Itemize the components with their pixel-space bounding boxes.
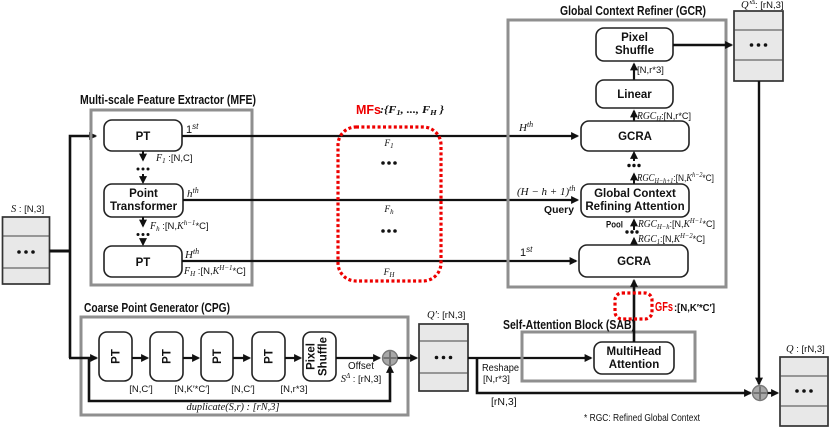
svg-text:FH: FH bbox=[383, 268, 396, 279]
MFE box bbox=[91, 110, 252, 285]
dots bbox=[625, 230, 638, 233]
svg-text:[N,K′*C′]: [N,K′*C′] bbox=[174, 384, 209, 395]
svg-text:GFs: GFs bbox=[655, 300, 673, 314]
svg-text:Reshape: Reshape bbox=[482, 363, 519, 374]
CPG box bbox=[81, 317, 408, 415]
svg-text:Refining Attention: Refining Attention bbox=[585, 201, 684, 213]
point transformer box bbox=[104, 184, 183, 217]
wire GCRA to Linear bbox=[633, 111, 635, 121]
svg-text:PT: PT bbox=[111, 349, 123, 364]
svg-text:RGCH−h+1:[N,Kh−2*C]: RGCH−h+1:[N,Kh−2*C] bbox=[636, 171, 714, 185]
svg-text:[N,C′]: [N,C′] bbox=[231, 384, 254, 395]
wire trunk into CPG bbox=[69, 357, 97, 360]
svg-text:S : [N,3]: S : [N,3] bbox=[11, 204, 44, 215]
svg-text:Transformer: Transformer bbox=[110, 201, 178, 213]
node S stack bbox=[3, 217, 50, 284]
PT box CPG 2 bbox=[150, 332, 183, 381]
PT box CPG 4 bbox=[252, 332, 285, 381]
svg-text:Linear: Linear bbox=[617, 89, 652, 101]
svg-text:[N,C′]: [N,C′] bbox=[129, 384, 152, 395]
svg-text:PT: PT bbox=[136, 131, 151, 143]
wire bbox=[233, 357, 250, 359]
wire RGC1 arrow bbox=[633, 239, 635, 246]
svg-text:1st: 1st bbox=[520, 245, 533, 260]
svg-text:Attention: Attention bbox=[609, 359, 659, 371]
svg-text:1st: 1st bbox=[186, 122, 199, 137]
svg-text:GCRA: GCRA bbox=[617, 256, 651, 268]
wire sum1 to Q' bbox=[398, 357, 417, 359]
wire down to PT bottom bbox=[142, 240, 144, 245]
wire Q' to MHA bbox=[468, 357, 591, 359]
wire bbox=[285, 357, 301, 359]
dots bbox=[137, 168, 150, 171]
wire down to Point Transformer bbox=[142, 174, 144, 183]
svg-text:Shuffle: Shuffle bbox=[318, 337, 330, 376]
wire Q'd down to sum bbox=[758, 81, 760, 384]
wire GCRF to dots bbox=[633, 174, 635, 184]
svg-text:MultiHead: MultiHead bbox=[607, 346, 662, 358]
svg-text:[rN,3]: [rN,3] bbox=[491, 396, 517, 408]
dots bbox=[137, 233, 150, 236]
svg-text:Pixel: Pixel bbox=[621, 32, 648, 44]
svg-text:Hth: Hth bbox=[184, 247, 199, 262]
svg-text:FH :[N,KH−1*C]: FH :[N,KH−1*C] bbox=[183, 264, 246, 278]
svg-text::[N,K′*C′]: :[N,K′*C′] bbox=[674, 302, 715, 314]
GCRF attention box bbox=[581, 184, 689, 217]
wire F1 line to GCRA bbox=[182, 135, 578, 137]
dots bbox=[381, 161, 397, 165]
svg-text:PT: PT bbox=[212, 349, 224, 364]
wire sum2 to Q bbox=[768, 392, 778, 394]
svg-text:(H − h + 1)th: (H − h + 1)th bbox=[517, 184, 575, 199]
wire PT1 down bbox=[142, 151, 144, 160]
sum circle 1 bbox=[383, 351, 398, 366]
svg-text:Q′: [rN,3]: Q′: [rN,3] bbox=[427, 310, 465, 321]
svg-text:Query: Query bbox=[544, 205, 574, 216]
wire CPG feedback bbox=[89, 358, 390, 401]
svg-text:Offset: Offset bbox=[348, 361, 374, 372]
wire up below GCRA top bbox=[633, 153, 635, 162]
svg-text:Fh: Fh bbox=[383, 205, 394, 216]
svg-text:hth: hth bbox=[187, 186, 199, 201]
svg-text:RGC1:[N,KH−2*C]: RGC1:[N,KH−2*C] bbox=[637, 232, 705, 246]
wire S to trunk bbox=[50, 250, 72, 253]
svg-text:duplicate(S,r) : [rN,3]: duplicate(S,r) : [rN,3] bbox=[187, 402, 280, 413]
svg-text:Fh :[N,Kh−1*C]: Fh :[N,Kh−1*C] bbox=[149, 219, 209, 233]
PT box MFE top bbox=[104, 120, 182, 151]
pixel shuffle box GCR bbox=[596, 28, 673, 61]
wire trunk vertical bbox=[70, 136, 96, 358]
wire bbox=[132, 357, 148, 359]
svg-text:* RGC: Refined Global Context: * RGC: Refined Global Context bbox=[584, 412, 700, 424]
svg-text:Pixel: Pixel bbox=[306, 343, 318, 370]
PT box CPG 1 bbox=[99, 332, 132, 381]
GCRA bottom box bbox=[579, 245, 688, 277]
svg-text:MFs: MFs bbox=[356, 103, 381, 117]
linear box bbox=[596, 80, 673, 108]
svg-text:Q′Δ: [rN,3]: Q′Δ: [rN,3] bbox=[741, 0, 784, 11]
svg-text:F1 :[N,C]: F1 :[N,C] bbox=[155, 153, 193, 165]
svg-text::{F1, ..., FH }: :{F1, ..., FH } bbox=[380, 105, 445, 117]
svg-text:Global Context Refiner (GCR): Global Context Refiner (GCR) bbox=[560, 4, 706, 18]
dots bbox=[627, 164, 640, 167]
svg-text:GCRA: GCRA bbox=[618, 131, 652, 143]
svg-text:[N,r*3]: [N,r*3] bbox=[483, 374, 510, 385]
svg-text:PT: PT bbox=[264, 349, 276, 364]
wire bbox=[183, 357, 199, 359]
wire PT down bbox=[142, 217, 144, 226]
svg-text:Pool: Pool bbox=[606, 220, 623, 231]
GCR box bbox=[508, 20, 726, 287]
svg-text:Global Context: Global Context bbox=[594, 188, 676, 200]
wire FH line to GCRA bottom bbox=[182, 260, 576, 262]
pixel shuffle box CPG bbox=[303, 332, 336, 381]
PT box CPG 3 bbox=[201, 332, 233, 381]
wire MHA up to GCRA bbox=[633, 281, 636, 343]
sum circle 2 bbox=[753, 386, 768, 401]
PT box MFE bottom bbox=[104, 246, 182, 277]
dots bbox=[381, 229, 397, 233]
wire PS to sum1 bbox=[336, 357, 380, 359]
svg-text:Hth: Hth bbox=[518, 120, 533, 135]
svg-text:Shuffle: Shuffle bbox=[615, 45, 654, 57]
svg-text:RGCH−h:[N,KH−1*C]: RGCH−h:[N,KH−1*C] bbox=[637, 217, 715, 231]
SAB box bbox=[522, 332, 695, 381]
svg-text:F1: F1 bbox=[383, 139, 393, 150]
GFs dashed box bbox=[615, 293, 652, 319]
svg-text:[N,r*3]: [N,r*3] bbox=[637, 65, 664, 76]
svg-text:PT: PT bbox=[162, 349, 174, 364]
svg-text:Multi-scale Feature Extractor: Multi-scale Feature Extractor (MFE) bbox=[80, 93, 256, 107]
multihead attention box bbox=[594, 342, 674, 374]
wire Fh line to GCRF bbox=[183, 199, 578, 201]
svg-text:[N,r*3]: [N,r*3] bbox=[281, 384, 308, 395]
wire PS to Q'd stack bbox=[673, 44, 732, 46]
svg-text:Point: Point bbox=[129, 188, 158, 200]
svg-text:PT: PT bbox=[136, 257, 151, 269]
svg-text:Q : [rN,3]: Q : [rN,3] bbox=[786, 344, 825, 355]
GCRA top box bbox=[581, 121, 689, 151]
MFs dashed box bbox=[338, 127, 441, 281]
svg-text:Coarse Point Generator (CPG): Coarse Point Generator (CPG) bbox=[84, 301, 230, 315]
node Q'd stack bbox=[734, 11, 783, 81]
svg-text:Self-Attention Block (SAB): Self-Attention Block (SAB) bbox=[503, 318, 635, 332]
wire pool arrow bbox=[633, 220, 635, 230]
wire branch down to sum2 bbox=[477, 358, 751, 393]
node Q stack bbox=[780, 357, 828, 426]
node Q' stack bbox=[419, 324, 468, 391]
svg-text:SΔ : [rN,3]: SΔ : [rN,3] bbox=[341, 372, 382, 385]
wire Linear to PS bbox=[633, 64, 635, 80]
